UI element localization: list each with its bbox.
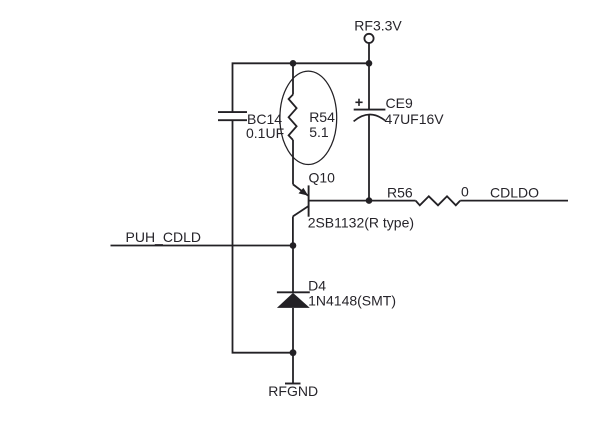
svg-text:47UF16V: 47UF16V [385, 111, 445, 127]
svg-text:0.1UF: 0.1UF [246, 125, 284, 141]
svg-text:RF3.3V: RF3.3V [354, 18, 402, 34]
svg-text:0: 0 [461, 184, 469, 200]
svg-text:1N4148(SMT): 1N4148(SMT) [308, 293, 396, 309]
svg-text:R54: R54 [309, 109, 335, 125]
svg-text:5.1: 5.1 [309, 124, 329, 140]
svg-text:CE9: CE9 [386, 95, 413, 111]
svg-text:RFGND: RFGND [268, 383, 318, 399]
svg-text:PUH_CDLD: PUH_CDLD [126, 229, 201, 245]
svg-text:2SB1132(R type): 2SB1132(R type) [308, 215, 414, 231]
svg-text:D4: D4 [308, 278, 326, 294]
svg-text:Q10: Q10 [309, 170, 336, 186]
svg-text:CDLDO: CDLDO [490, 185, 539, 201]
svg-text:R56: R56 [387, 184, 413, 200]
